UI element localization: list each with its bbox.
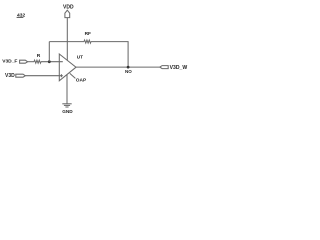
svg-text:RF: RF [85, 31, 91, 37]
svg-text:V3D: V3D [5, 73, 15, 79]
wire port V3D_F to resistor R [28, 61, 34, 63]
wire op-amp to ground [66, 75, 68, 104]
svg-text:UT: UT [77, 55, 83, 60]
resistor R [34, 53, 41, 63]
figure label 432 [17, 12, 26, 18]
wire feedback up [48, 42, 50, 62]
wire VDD to op-amp top edge [66, 18, 68, 61]
node NO [125, 66, 132, 75]
svg-text:OAP: OAP [76, 78, 87, 84]
resistor RF [84, 31, 91, 43]
port V3D_W [160, 65, 188, 71]
svg-text:V3D_F: V3D_F [2, 59, 17, 65]
svg-text:R: R [37, 53, 41, 59]
svg-text:V3D_W: V3D_W [170, 65, 188, 71]
op-amp UT plus mark [60, 74, 62, 77]
wire feedback horizontal left of RF [49, 41, 84, 43]
svg-text:GND: GND [62, 109, 73, 114]
wire port V3D to non-inverting input [25, 75, 63, 77]
wire feedback horizontal right of RF [91, 42, 128, 68]
wire resistor R to inverting input [41, 61, 63, 63]
svg-text:VDD: VDD [63, 5, 74, 11]
op-amp UT [59, 54, 76, 81]
port V3D_F [2, 59, 27, 65]
power VDD [63, 5, 74, 18]
label OAP with leader [70, 73, 87, 83]
svg-text:NO: NO [125, 69, 132, 74]
port V3D [5, 73, 25, 79]
wire output [76, 66, 160, 68]
ground [62, 104, 73, 114]
junction node inverting input [48, 60, 51, 63]
